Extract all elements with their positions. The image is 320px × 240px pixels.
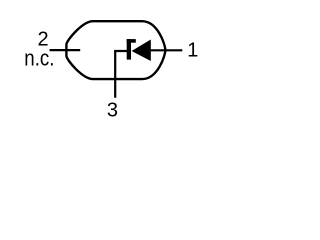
svg-text:1: 1 (187, 40, 198, 62)
svg-text:3: 3 (107, 99, 118, 121)
diode D1 cathode bar (127, 39, 131, 60)
pin 3 wire (115, 51, 127, 98)
diode D1 anode triangle (132, 40, 151, 62)
diode package outline (66, 21, 165, 79)
pin 1 wire (151, 49, 183, 51)
diode D1 cathode bent top (127, 39, 136, 43)
pin 2 wire (n.c. stub) (50, 49, 81, 51)
svg-text:n.c.: n.c. (24, 47, 54, 71)
